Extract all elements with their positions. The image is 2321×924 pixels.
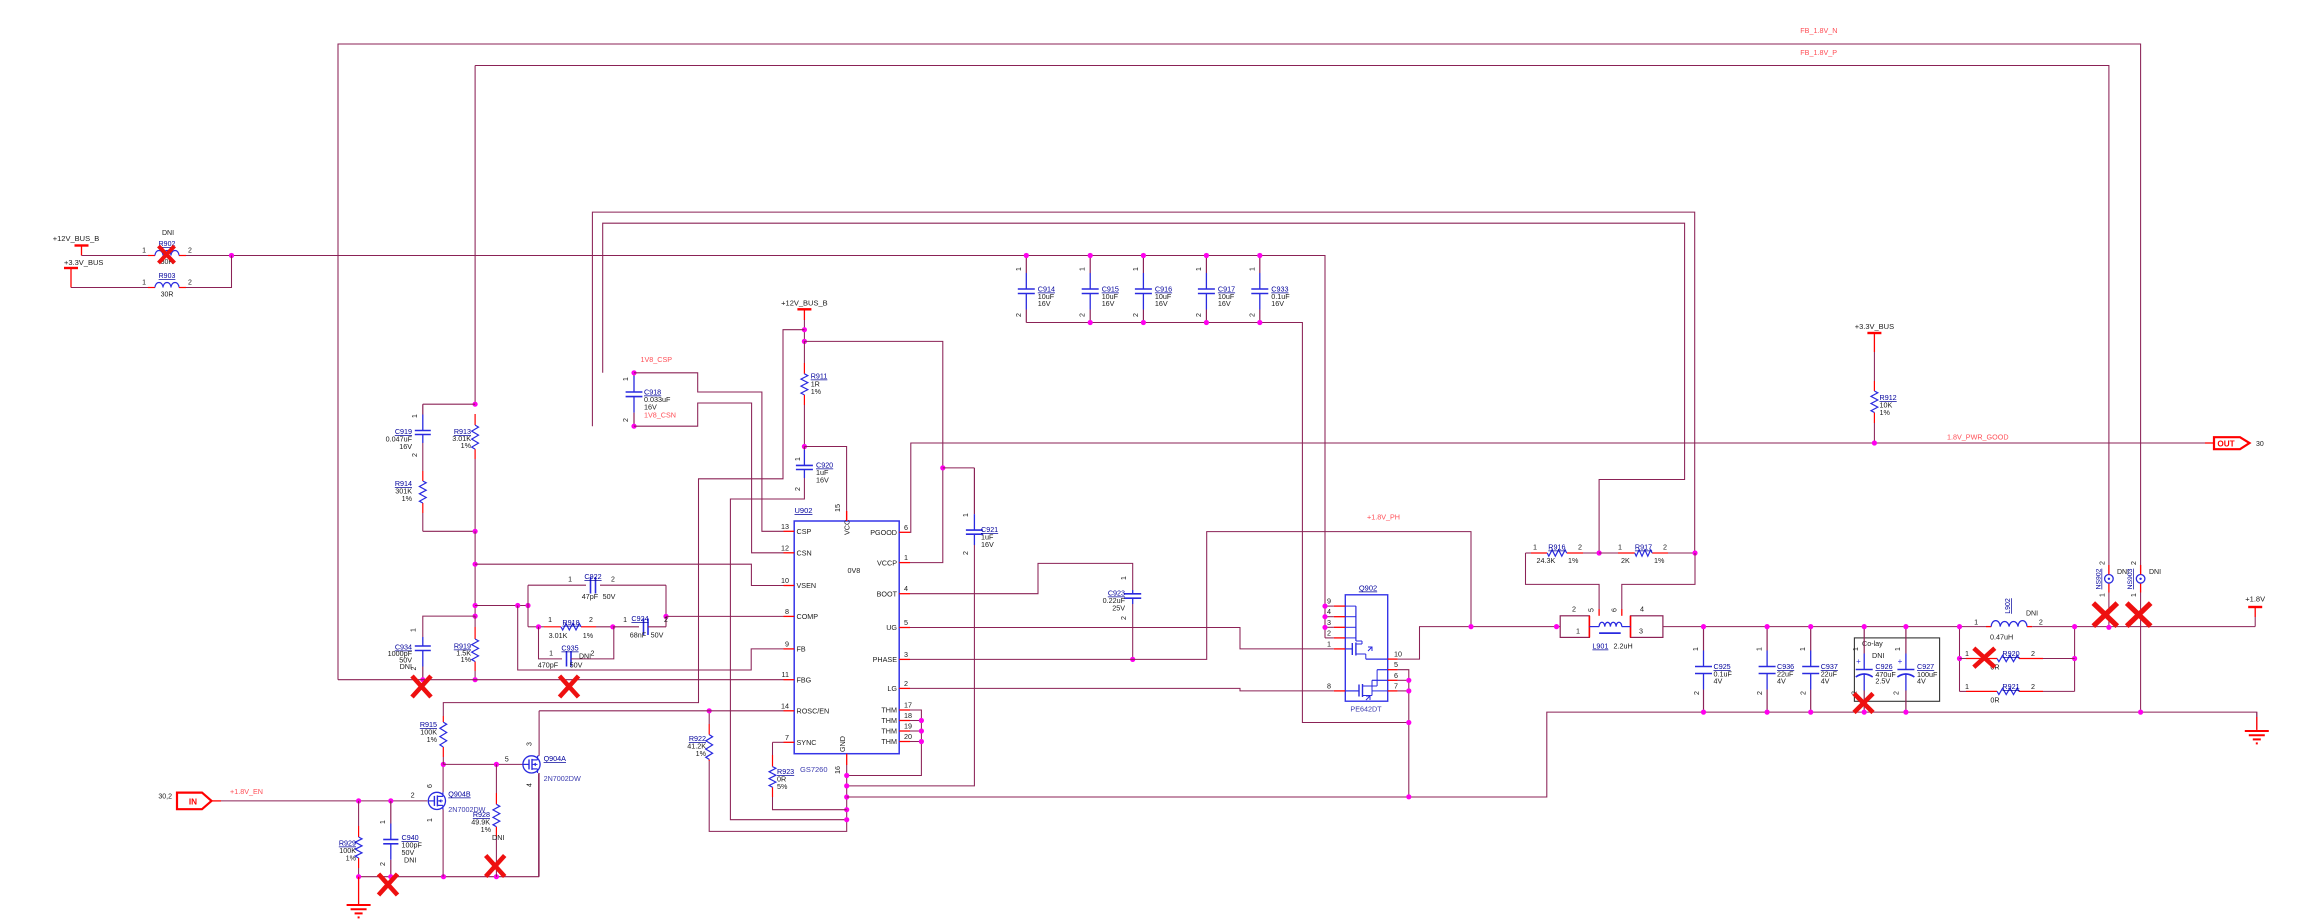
svg-text:2: 2	[1133, 313, 1140, 317]
svg-text:GND: GND	[838, 736, 847, 752]
power symbol +3.3V_BUS right / R912	[1867, 332, 1881, 334]
svg-text:Q904A: Q904A	[544, 754, 567, 763]
wire +12V down to junctions	[803, 320, 805, 330]
svg-text:4: 4	[1640, 605, 1644, 614]
svg-text:1: 1	[2100, 593, 2107, 597]
transistor Q902 PE642DT box	[1345, 595, 1387, 701]
capacitor C918 0.033uF	[633, 373, 635, 376]
resistor R928 49.9K DNI	[495, 793, 497, 804]
svg-text:2: 2	[411, 791, 415, 800]
X mark NS903 DNI	[2127, 603, 2151, 626]
svg-text:6: 6	[904, 523, 908, 532]
svg-text:1: 1	[1757, 647, 1764, 651]
svg-text:VCCP: VCCP	[877, 558, 897, 567]
svg-text:2: 2	[380, 862, 387, 866]
svg-text:14: 14	[781, 701, 789, 710]
svg-text:2: 2	[591, 651, 595, 658]
svg-text:1: 1	[1249, 267, 1256, 271]
svg-text:12: 12	[781, 543, 789, 552]
svg-text:COMP: COMP	[797, 612, 819, 621]
svg-text:DNI: DNI	[2149, 569, 2161, 576]
svg-text:1: 1	[1965, 649, 1969, 658]
capacitor C922 47pF	[528, 584, 586, 586]
svg-text:NS903: NS903	[2127, 568, 2134, 589]
wire 1V8_CSP to CSP pin	[634, 373, 784, 532]
svg-text:15: 15	[833, 504, 842, 512]
wire 1V8_CSP remote sense loop	[603, 223, 1685, 553]
svg-text:1: 1	[1618, 543, 1622, 552]
X mark R920 DNI	[1974, 648, 1995, 667]
wire 1V8_CSN remote sense loop	[592, 212, 1694, 553]
pin 20 THM U902	[899, 741, 910, 743]
pin 11 FBG U902	[784, 679, 795, 681]
svg-text:+: +	[1898, 657, 1903, 666]
svg-text:CSN: CSN	[797, 549, 812, 558]
svg-text:1%: 1%	[696, 749, 707, 758]
capacitor C940 100pF DNI	[390, 801, 392, 824]
wire VCC node to pin 15	[804, 447, 846, 511]
svg-text:10: 10	[1394, 650, 1402, 659]
wire gate node to Q904A	[443, 763, 523, 765]
wire R917 kelvin to L901 pin6	[1622, 553, 1695, 609]
svg-text:4V: 4V	[1777, 677, 1786, 686]
svg-text:L902: L902	[2005, 598, 2012, 614]
ground symbol right	[2256, 712, 2258, 717]
svg-text:Co-lay: Co-lay	[1862, 639, 1883, 648]
X mark C926 DNI	[1854, 694, 1873, 713]
svg-text:8: 8	[785, 607, 789, 616]
svg-text:+12V_BUS_B: +12V_BUS_B	[53, 234, 100, 243]
svg-text:2: 2	[1121, 616, 1128, 620]
transistor Q904A 2N7002DW	[523, 756, 540, 773]
svg-text:2: 2	[664, 617, 668, 624]
pin 12 CSN U902	[784, 552, 795, 554]
junction R917 output	[1692, 550, 1697, 555]
svg-text:4: 4	[1327, 607, 1331, 616]
pin 5 UG U902	[899, 627, 910, 629]
svg-text:PE642DT: PE642DT	[1350, 705, 1382, 714]
resistor R916 24.3K	[1531, 552, 1547, 554]
capacitor C934 1000pF DNI	[422, 637, 424, 646]
wire C922 to COMP corner	[665, 585, 667, 616]
svg-text:1%: 1%	[583, 631, 594, 640]
svg-text:4V: 4V	[1821, 677, 1830, 686]
junction divider mid	[473, 529, 478, 534]
junction C923 PHASE	[1130, 657, 1135, 662]
pin 1 VCCP U902	[899, 562, 910, 564]
svg-text:19: 19	[904, 722, 912, 731]
power symbol +12V_BUS_B left	[75, 244, 89, 246]
svg-text:DNI: DNI	[2026, 611, 2038, 618]
wire PHASE line	[910, 532, 1471, 660]
svg-text:16V: 16V	[981, 540, 994, 549]
svg-text:DNI: DNI	[1872, 651, 1884, 660]
svg-text:6: 6	[1394, 671, 1398, 680]
pin 18 THM U902	[899, 720, 910, 722]
svg-text:R917: R917	[1635, 543, 1652, 552]
svg-text:1%: 1%	[481, 825, 492, 834]
svg-text:LG: LG	[887, 684, 897, 693]
svg-text:U902: U902	[795, 506, 813, 515]
wire net FB_1.8V_N top loop	[338, 44, 2141, 680]
resistor R920 0R DNI	[1966, 658, 1997, 660]
svg-text:2: 2	[795, 487, 802, 491]
wire BOOT to C923	[910, 563, 1133, 593]
svg-text:24.3K: 24.3K	[1537, 556, 1556, 565]
svg-text:2: 2	[1757, 691, 1764, 695]
svg-text:1: 1	[1133, 267, 1140, 271]
capacitor C914	[1025, 256, 1027, 274]
svg-text:5: 5	[904, 618, 908, 627]
X mark C935 branch DNI	[560, 676, 579, 697]
svg-text:0R: 0R	[1990, 696, 1999, 705]
pin 1 Q902	[1334, 648, 1345, 650]
wire VSEN line to pin 10	[475, 564, 783, 585]
wire +12V pullup branch to R915	[443, 330, 804, 716]
ferrite bead R902 DNI	[148, 255, 155, 257]
wire VSEN to comp node	[475, 605, 528, 607]
pin 10 Q902	[1388, 658, 1398, 660]
svg-text:1: 1	[623, 617, 627, 624]
svg-text:2: 2	[2039, 618, 2043, 627]
junction divider top	[473, 402, 478, 407]
pin 17 THM U902	[899, 709, 910, 711]
capacitor C923 0.22uF	[1132, 590, 1134, 594]
svg-text:+3.3V_BUS: +3.3V_BUS	[64, 258, 103, 267]
resistor R911 1R	[803, 363, 805, 374]
resistor R922 41.2K	[708, 724, 710, 735]
wire FB drop	[518, 606, 784, 671]
svg-text:THM: THM	[881, 737, 897, 746]
wire NS903 to ground bus	[2140, 593, 2142, 713]
svg-text:2: 2	[589, 617, 593, 624]
svg-text:1V8_CSP: 1V8_CSP	[641, 355, 673, 364]
svg-text:+12V_BUS_B: +12V_BUS_B	[781, 299, 828, 308]
svg-text:2K: 2K	[1621, 556, 1630, 565]
capacitor C933	[1259, 256, 1261, 274]
svg-text:OUT: OUT	[2217, 439, 2234, 448]
svg-text:50V: 50V	[603, 592, 616, 601]
svg-text:THM: THM	[881, 727, 897, 736]
svg-text:6: 6	[1611, 608, 1618, 612]
X mark R928 DNI	[486, 856, 505, 877]
resistor R919 1.5K	[474, 627, 476, 639]
wire divider loop bottom	[423, 530, 475, 532]
junction Q902 source pins	[1398, 670, 1409, 797]
wire divider loop top	[423, 403, 475, 405]
svg-text:1: 1	[963, 513, 970, 517]
junction R919 on FBG bus	[473, 677, 478, 682]
svg-text:2.2uH: 2.2uH	[1614, 642, 1633, 651]
svg-text:25V: 25V	[1112, 604, 1125, 613]
inductor L901 2.2uH	[1560, 616, 1589, 638]
wire LG to Q902 pin8	[910, 688, 1334, 691]
svg-text:+1.8V_EN: +1.8V_EN	[230, 787, 263, 796]
svg-text:11: 11	[782, 670, 789, 679]
svg-text:16V: 16V	[1271, 299, 1284, 308]
svg-text:2: 2	[1572, 605, 1576, 614]
svg-text:1: 1	[1974, 618, 1978, 627]
capacitor C915	[1089, 256, 1091, 274]
svg-text:0V8: 0V8	[848, 566, 861, 575]
svg-text:47pF: 47pF	[582, 592, 599, 601]
op-amp U902 GS7260 controller box	[794, 521, 899, 754]
junction R911 bottom VCC node	[802, 444, 807, 449]
wire Q902 drain pins from +12V	[1325, 605, 1334, 607]
svg-text:+3.3V_BUS: +3.3V_BUS	[1855, 322, 1894, 331]
svg-text:DNI: DNI	[400, 662, 412, 671]
port OUT	[2214, 437, 2250, 449]
svg-text:1: 1	[1576, 627, 1580, 636]
X mark C934 DNI	[412, 676, 431, 697]
svg-text:2: 2	[611, 577, 615, 584]
capacitor C919 0.047uF	[422, 404, 424, 414]
svg-text:FB: FB	[797, 645, 806, 654]
svg-text:1: 1	[1121, 576, 1128, 580]
resistor R917 2K	[1618, 552, 1635, 554]
svg-text:PGOOD: PGOOD	[870, 528, 897, 537]
svg-text:FB_1.8V_P: FB_1.8V_P	[1800, 48, 1837, 57]
svg-text:FB_1.8V_N: FB_1.8V_N	[1800, 26, 1837, 35]
wire FBG bus to pin 11	[338, 679, 784, 681]
svg-text:7: 7	[785, 733, 789, 742]
svg-text:1: 1	[427, 818, 434, 822]
svg-text:5: 5	[505, 755, 509, 764]
svg-text:IN: IN	[189, 797, 197, 806]
wire COMP to pin 8	[666, 615, 784, 617]
svg-text:UG: UG	[886, 623, 897, 632]
wire R920 R921 left riser	[1959, 627, 1961, 692]
svg-text:2: 2	[2031, 649, 2035, 658]
svg-text:+1.8V_PH: +1.8V_PH	[1367, 513, 1400, 522]
pin 4 Q902	[1334, 616, 1345, 618]
svg-text:2: 2	[1196, 313, 1203, 317]
pin 3 PHASE U902	[899, 658, 910, 660]
X mark R902 DNI	[159, 246, 175, 263]
resistor R915 100K	[442, 716, 444, 722]
wire R916 kelvin to L901 pin5	[1526, 553, 1600, 609]
resistor R914 301K	[422, 471, 424, 481]
wire C934 top link	[423, 616, 475, 637]
junction VCCP C921	[940, 465, 945, 470]
pin 16 GND U902	[846, 754, 848, 765]
svg-text:1: 1	[1895, 647, 1902, 651]
wire R920 R921 right riser	[2074, 627, 2076, 692]
junction node bead output	[229, 253, 234, 258]
svg-text:16V: 16V	[816, 476, 829, 485]
pin 2 LG U902	[899, 687, 910, 689]
wire GND pin stack	[709, 761, 847, 831]
svg-text:1: 1	[412, 414, 419, 418]
junction R929 top	[356, 798, 361, 803]
pin 14 ROSC/EN U902	[784, 710, 795, 712]
svg-text:2: 2	[1249, 313, 1256, 317]
wire FB_P vertical to divider	[474, 66, 476, 405]
ferrite bead R903 30R	[148, 287, 155, 289]
inductor L902 0.47uH DNI	[1986, 626, 1991, 628]
svg-text:FBG: FBG	[797, 675, 812, 684]
junction gate node R915	[441, 762, 446, 767]
svg-text:2: 2	[623, 418, 630, 422]
wire THM pins common	[847, 710, 922, 776]
svg-text:2.5V: 2.5V	[1875, 677, 1890, 686]
svg-text:30R: 30R	[161, 292, 174, 299]
svg-text:2: 2	[412, 453, 419, 457]
svg-text:5: 5	[1394, 660, 1398, 669]
svg-text:1: 1	[2131, 593, 2138, 597]
wire R903 to node	[186, 256, 232, 288]
svg-text:C924: C924	[631, 614, 648, 623]
svg-text:16V: 16V	[1102, 299, 1115, 308]
capacitor C920 1uF VCC decoupling	[803, 447, 805, 450]
power symbol +3.3V_BUS left	[64, 267, 78, 269]
svg-text:1%: 1%	[461, 655, 472, 664]
capacitor C924 68nF	[613, 626, 639, 628]
pin 6 PGOOD U902	[899, 531, 910, 533]
svg-text:2: 2	[1694, 691, 1701, 695]
capacitor C927 100uF polarized	[1905, 627, 1907, 654]
Q902 internal low-side FET	[1345, 690, 1359, 692]
svg-text:SYNC: SYNC	[797, 738, 817, 747]
wire +1.8V_EN line	[212, 800, 222, 802]
wire UG to Q902 pin1	[910, 628, 1334, 649]
svg-text:1: 1	[1965, 682, 1969, 691]
wire ground bus long	[847, 712, 2257, 797]
svg-text:3.01K: 3.01K	[549, 631, 568, 640]
pin 19 THM U902	[899, 730, 910, 732]
wire 1V8_CSN to CSN pin	[634, 403, 784, 553]
svg-text:2: 2	[188, 248, 192, 255]
pin 5 Q902	[1388, 669, 1398, 671]
wire R902 to node	[186, 256, 1325, 638]
capacitor C935 470pF DNI branch	[539, 627, 563, 659]
svg-text:R920: R920	[2002, 649, 2019, 658]
Co-lay box	[1854, 638, 1939, 701]
pin 8 Q902	[1334, 690, 1345, 692]
X mark C940 DNI	[379, 874, 398, 895]
Q902 internal high-side FET	[1355, 606, 1357, 641]
pin 4 BOOT U902	[899, 593, 910, 595]
svg-text:1: 1	[1853, 647, 1860, 651]
junction comp node	[515, 603, 520, 608]
svg-text:4V: 4V	[1917, 677, 1926, 686]
svg-text:1: 1	[1080, 267, 1087, 271]
resistor R918 3.01K	[528, 626, 544, 628]
wire SYNC to R923	[773, 741, 784, 743]
svg-text:16V: 16V	[1155, 299, 1168, 308]
svg-text:2: 2	[1663, 543, 1667, 552]
svg-text:5: 5	[1589, 608, 1596, 612]
capacitor C926 470uF DNI polarized	[1863, 627, 1865, 654]
junction COMP node	[663, 614, 668, 619]
svg-text:L901: L901	[1592, 642, 1608, 651]
junction C940 top	[388, 798, 393, 803]
svg-text:GS7260: GS7260	[800, 765, 828, 774]
svg-text:1%: 1%	[811, 387, 822, 396]
wire PGOOD to 1.8V_PWR_GOOD line	[910, 443, 2205, 532]
svg-text:2: 2	[411, 666, 418, 670]
svg-text:DNI: DNI	[404, 856, 416, 865]
svg-text:1%: 1%	[461, 441, 472, 450]
svg-text:2: 2	[1327, 628, 1331, 637]
resistor R921 0R	[1966, 690, 1997, 692]
junction R916 R917 1V8_CSP	[1597, 550, 1602, 555]
svg-text:THM: THM	[881, 716, 897, 725]
wire NS902 to rail	[2108, 593, 2110, 628]
svg-text:1: 1	[1693, 647, 1700, 651]
wire C921 top link	[943, 467, 975, 469]
power symbol +1.8V	[2248, 606, 2262, 608]
svg-text:2N7002DW: 2N7002DW	[544, 774, 581, 783]
X mark NS902 DNI	[2093, 603, 2117, 626]
svg-text:1: 1	[1533, 543, 1537, 552]
svg-text:DNI: DNI	[579, 654, 591, 661]
svg-text:2: 2	[1893, 691, 1900, 695]
pin 6 Q902	[1388, 679, 1398, 681]
svg-text:1.8V_PWR_GOOD: 1.8V_PWR_GOOD	[1947, 433, 2009, 442]
capacitor C936 22uF	[1766, 627, 1768, 651]
junction R928 top	[494, 762, 499, 767]
junction C934 on FBG bus	[420, 677, 425, 682]
svg-text:4V: 4V	[1714, 677, 1723, 686]
svg-text:2: 2	[2100, 561, 2107, 565]
power symbol +12V_BUS_B center	[797, 308, 811, 310]
pin 7 SYNC U902	[784, 741, 795, 743]
wire rail after L902	[2032, 626, 2255, 628]
svg-text:1%: 1%	[1654, 556, 1665, 565]
svg-text:1: 1	[1327, 639, 1331, 648]
svg-text:17: 17	[904, 701, 912, 710]
ground symbol bottom left	[358, 877, 360, 905]
wire C921 ground link	[847, 545, 975, 786]
wire net FB_1.8V_P top loop	[475, 66, 2109, 575]
svg-text:PHASE: PHASE	[873, 655, 898, 664]
pin 13 CSP U902	[784, 530, 795, 532]
svg-text:13: 13	[781, 522, 789, 531]
svg-text:50V: 50V	[570, 661, 583, 670]
svg-text:18: 18	[904, 711, 912, 720]
wire VCCP to C921	[910, 468, 943, 563]
svg-text:16V: 16V	[1218, 299, 1231, 308]
svg-text:+: +	[1856, 657, 1861, 666]
svg-text:1: 1	[904, 553, 908, 562]
svg-text:2: 2	[963, 551, 970, 555]
svg-text:DNI: DNI	[492, 833, 504, 842]
svg-text:1: 1	[142, 280, 146, 287]
svg-text:2: 2	[1016, 313, 1023, 317]
pin 3 Q902	[1334, 626, 1345, 628]
wire C920 ground path	[730, 478, 846, 820]
resistor R912 10K	[1873, 381, 1875, 391]
svg-text:4: 4	[527, 783, 534, 787]
svg-text:R918: R918	[562, 618, 579, 627]
svg-text:C922: C922	[584, 572, 601, 581]
svg-text:3: 3	[904, 650, 908, 659]
svg-text:1%: 1%	[346, 854, 357, 863]
wire +12V to VCCP column	[804, 341, 942, 468]
svg-text:9: 9	[785, 639, 789, 648]
pin 7 Q902	[1388, 690, 1398, 692]
svg-text:16: 16	[833, 766, 842, 774]
resistor R913 3.01K	[474, 414, 476, 425]
svg-text:C935: C935	[561, 644, 578, 653]
svg-text:3: 3	[1639, 627, 1643, 636]
svg-text:Q902: Q902	[1359, 584, 1377, 593]
wire Q902 pin10 to phase node	[1398, 627, 1561, 660]
svg-text:1%: 1%	[1568, 556, 1579, 565]
svg-text:470pF: 470pF	[538, 661, 559, 670]
svg-text:2: 2	[1801, 691, 1808, 695]
